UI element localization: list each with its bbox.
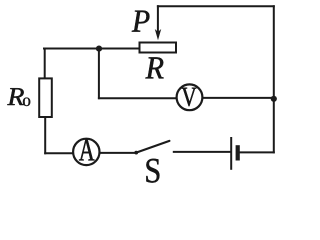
ammeter A1 circle [73, 139, 99, 165]
rheostat R body [140, 43, 177, 53]
wire top horizontal [158, 5, 274, 7]
voltmeter letter V [182, 88, 197, 107]
switch S contact dot [134, 151, 138, 155]
wire voltmeter branch horizontal left [99, 97, 176, 99]
switch S lever [136, 141, 169, 153]
label R0 subscript 0 [23, 98, 30, 106]
slider arrowhead P [155, 29, 161, 40]
wire left vertical upper [44, 49, 46, 79]
wire bottom-left horizontal [45, 152, 73, 154]
wire left vertical lower [44, 118, 46, 153]
label P [132, 11, 150, 32]
battery cell short thick plate [236, 145, 240, 160]
wire switch to battery [174, 151, 230, 153]
node junction left [96, 46, 102, 52]
wire battery to right [240, 151, 274, 153]
wire voltmeter branch horizontal right [203, 97, 274, 99]
wire voltmeter branch vertical [98, 49, 100, 99]
ammeter letter A [79, 140, 95, 161]
battery cell long plate [230, 137, 232, 170]
label R [145, 57, 163, 78]
resistor R0 [39, 78, 52, 117]
wire top-left horizontal [44, 48, 139, 50]
label S [146, 159, 159, 183]
node junction right [271, 96, 277, 102]
label R0 [7, 88, 24, 105]
wire right vertical [273, 6, 275, 152]
wire slider shaft [157, 6, 159, 33]
voltmeter V1 circle [177, 84, 203, 110]
wire ammeter to switch [100, 152, 136, 154]
